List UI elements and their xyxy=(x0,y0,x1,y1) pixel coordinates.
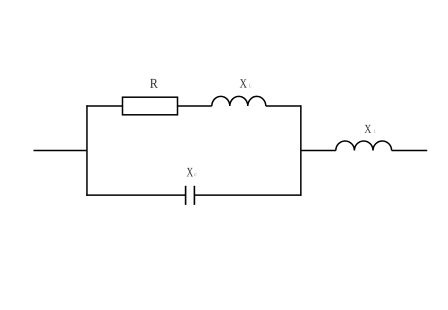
wire bottom branch left segment xyxy=(86,194,185,196)
label XL right xyxy=(365,125,376,133)
wire output lead left segment xyxy=(301,149,336,151)
wire left vertical branch (input node junction) xyxy=(86,105,88,196)
wire output lead right segment xyxy=(392,149,428,151)
resistor R xyxy=(123,97,178,115)
capacitor XC xyxy=(186,186,195,205)
wire top branch right segment xyxy=(266,105,302,107)
inductor XL top branch xyxy=(212,96,266,106)
wire bottom branch right segment xyxy=(194,194,301,196)
label XL top xyxy=(240,79,251,87)
wire input lead xyxy=(34,149,88,151)
inductor XL output series xyxy=(336,141,392,151)
wire top branch middle segment xyxy=(178,105,212,107)
label XC xyxy=(187,168,197,177)
label R xyxy=(150,79,158,88)
wire right vertical branch (output node junction) xyxy=(300,105,302,196)
wire top branch left segment xyxy=(86,105,122,107)
